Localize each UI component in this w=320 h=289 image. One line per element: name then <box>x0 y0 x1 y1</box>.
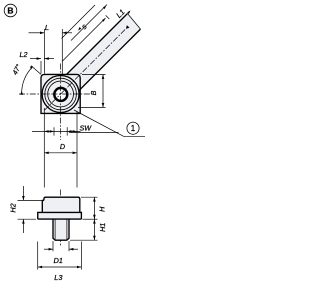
H1 arrows on shared line <box>93 219 96 223</box>
D inside arrows on shared row <box>44 130 48 133</box>
arc arrow lower <box>20 91 23 95</box>
boss inner circle <box>48 81 74 107</box>
L extension lines <box>43 29 45 74</box>
dimension s line (diagonal B) <box>71 5 107 41</box>
SW extension ticks <box>53 127 55 135</box>
s dim arrow down-left <box>78 27 81 31</box>
L1 perpendicular ext tick <box>106 15 110 19</box>
L2 dimension <box>30 58 41 60</box>
svg-text:B: B <box>89 90 98 95</box>
H2 extension lines <box>18 199 43 201</box>
L3 dimension <box>38 266 82 268</box>
threaded stud with hex <box>53 219 69 240</box>
L1 arrow on C line <box>102 18 105 22</box>
boss outer circle <box>42 76 79 113</box>
arm upper edge <box>67 14 128 75</box>
47 deg angular arc <box>22 67 33 94</box>
svg-text:SW: SW <box>80 123 93 132</box>
svg-text:H1: H1 <box>98 223 107 232</box>
svg-text:H: H <box>98 206 107 212</box>
arm end cut line <box>128 14 141 30</box>
variant marker circled B <box>4 4 17 17</box>
L3 extension lines <box>37 242 39 270</box>
block body stepped outline <box>38 197 82 219</box>
threaded hole white interior <box>56 89 66 99</box>
arrow on arm upper edge <box>127 11 130 15</box>
vertical centerline <box>60 64 62 141</box>
part callout leader 1 <box>74 110 145 136</box>
svg-text:L2: L2 <box>20 50 28 59</box>
front view centerline <box>60 190 62 246</box>
horizontal centerline <box>19 93 91 95</box>
svg-text:D: D <box>60 142 65 151</box>
arm lower edge <box>79 29 141 91</box>
svg-text:L: L <box>45 23 49 32</box>
arm fill polygon <box>67 14 141 91</box>
svg-text:B: B <box>7 6 13 16</box>
diagonal line C / L1 dim line <box>62 18 106 62</box>
threaded hole thick ring <box>54 88 67 101</box>
front part fill <box>38 197 82 240</box>
H/H1 extension lines <box>81 196 98 198</box>
L2 extension line <box>40 61 42 74</box>
s dim arrow up-right <box>103 6 106 10</box>
boss mid circle <box>45 78 77 110</box>
H dimension <box>93 197 95 240</box>
B dimension <box>102 75 104 108</box>
arrow on arm axis near cut <box>126 25 130 29</box>
arc arrow upper <box>30 66 33 69</box>
SW dimension <box>32 130 81 132</box>
svg-text:H2: H2 <box>9 203 18 212</box>
L dimension <box>29 32 45 34</box>
B extension lines <box>82 74 106 76</box>
svg-text:1: 1 <box>131 124 136 133</box>
47 deg corner ray <box>31 66 41 75</box>
H2 dimension <box>22 186 24 200</box>
D1 extension lines <box>52 241 54 251</box>
D dimension <box>44 152 77 154</box>
body square outline <box>41 74 80 113</box>
plate bottom edge <box>38 218 82 220</box>
arm axis centerline 45deg <box>45 27 128 110</box>
svg-text:D1: D1 <box>53 256 62 265</box>
circled 1 <box>127 122 139 134</box>
svg-text:L3: L3 <box>54 273 63 282</box>
thread core lines <box>54 220 56 240</box>
D extension lines <box>43 108 45 188</box>
diagonal line A (47deg reference extended) <box>62 5 96 39</box>
D1 dimension <box>44 248 53 250</box>
